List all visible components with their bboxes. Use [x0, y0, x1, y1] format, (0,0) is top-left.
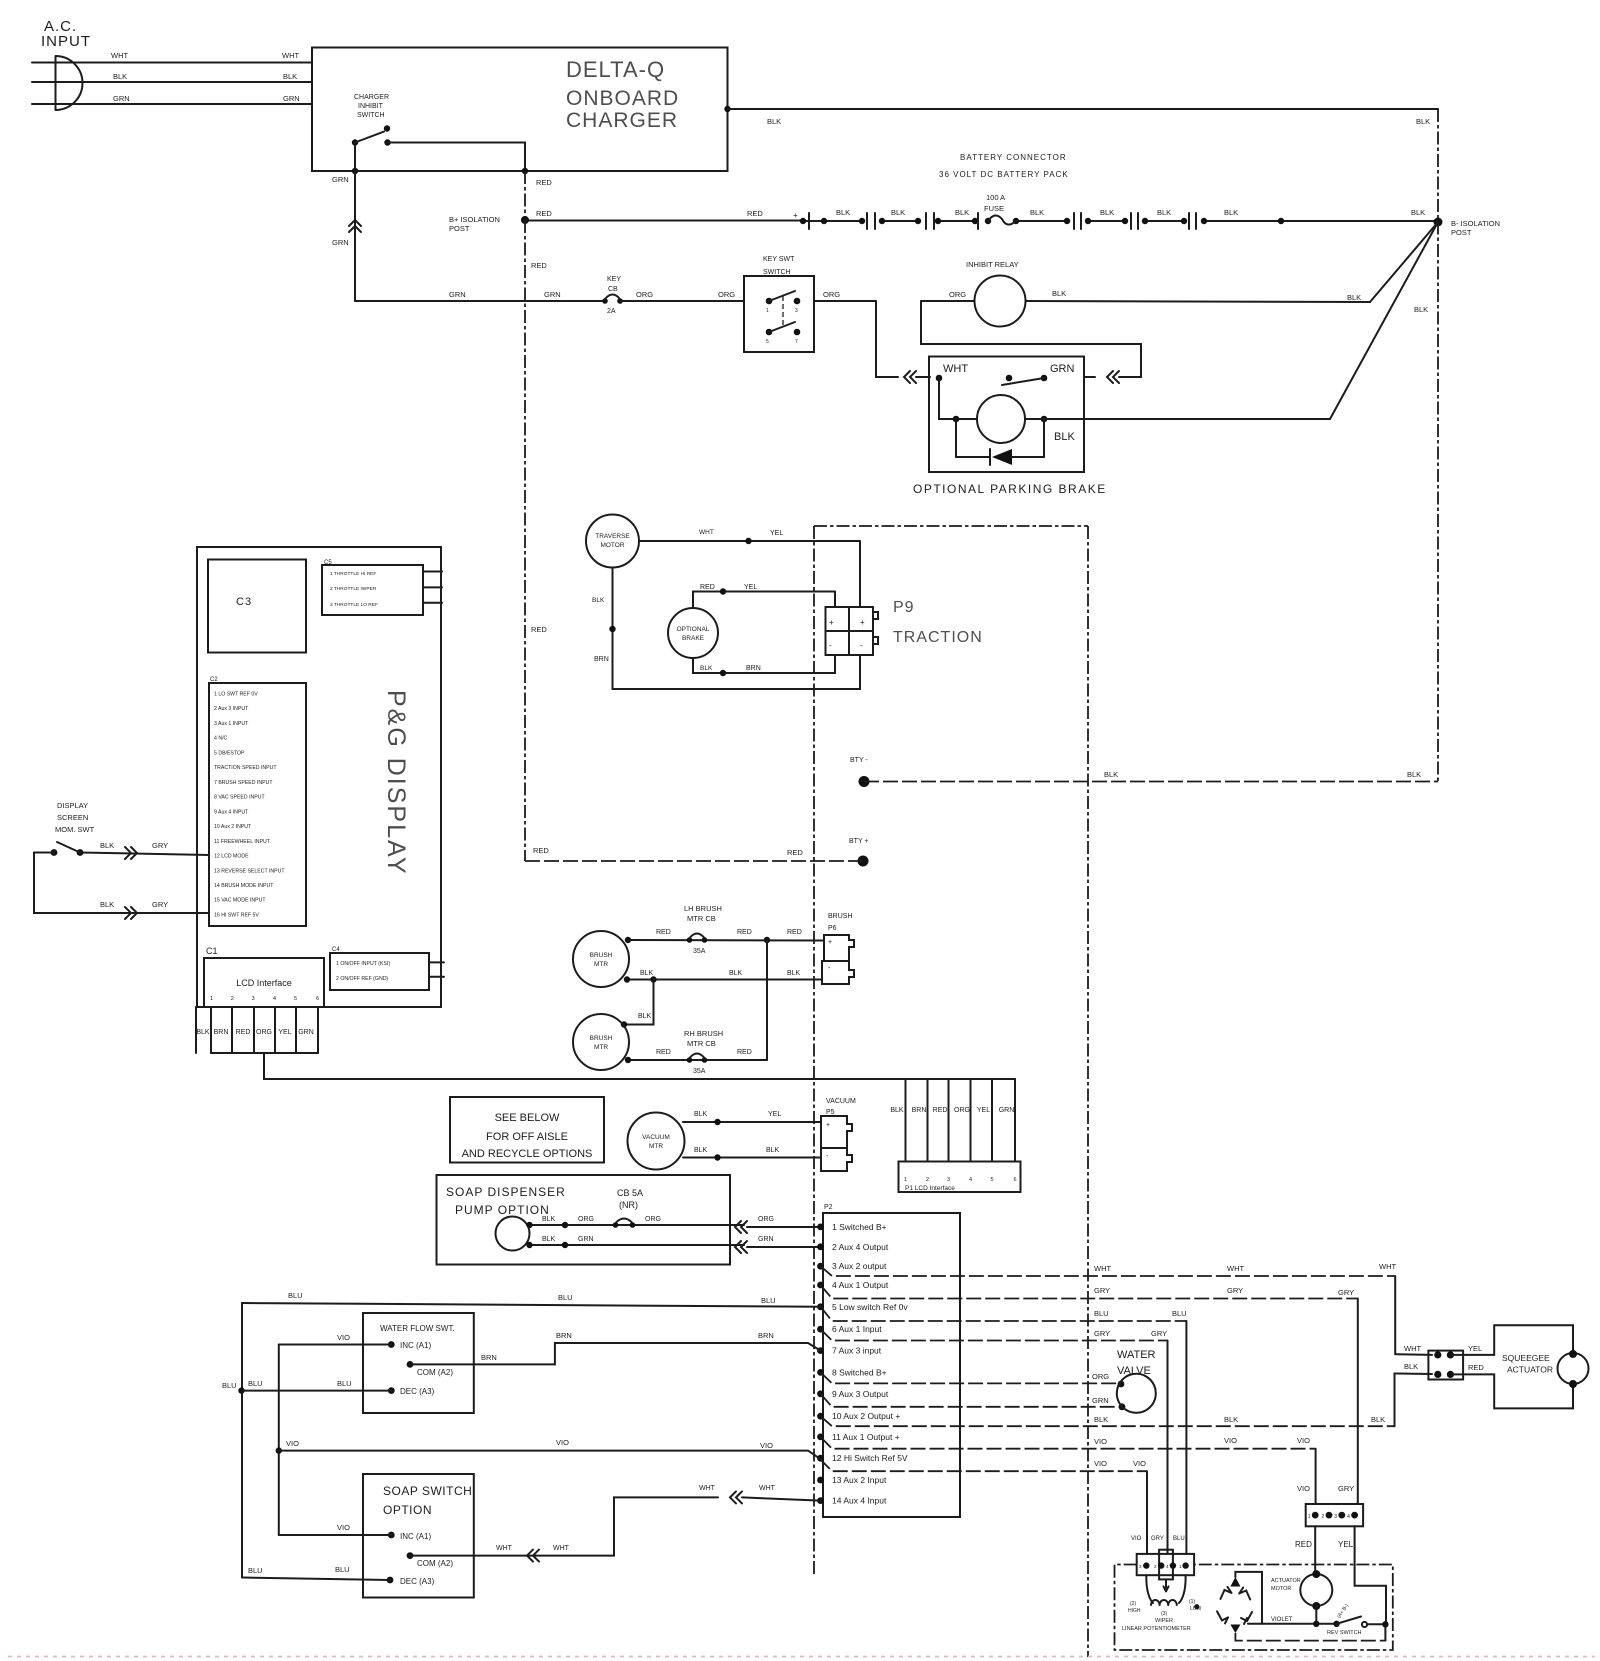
- svg-text:+: +: [826, 1122, 830, 1129]
- svg-text:SWITCH: SWITCH: [357, 112, 385, 119]
- pump M7 soap pump: [496, 1217, 530, 1251]
- svg-text:WHT: WHT: [496, 1545, 513, 1552]
- svg-text:1 THROTTLE HI REF: 1 THROTTLE HI REF: [330, 571, 376, 577]
- svg-text:BLK: BLK: [1094, 1415, 1108, 1424]
- svg-text:GRY: GRY: [1227, 1286, 1243, 1295]
- svg-text:P2: P2: [824, 1204, 833, 1211]
- svg-text:BLU: BLU: [558, 1293, 573, 1302]
- svg-text:P6: P6: [828, 925, 837, 932]
- motor M2 traverse motor: [586, 515, 639, 568]
- wire BLU to water flow DEC: [242, 1390, 391, 1392]
- breaker CB3 RH brush 35A: [687, 1057, 693, 1063]
- svg-text:16 HI SWT REF 5V: 16 HI SWT REF 5V: [214, 912, 259, 918]
- wire BLK BTY- to B- post: [864, 781, 1438, 783]
- wire vertical to charger bottom RED: [524, 143, 526, 172]
- svg-text:5: 5: [294, 996, 297, 1002]
- svg-text:+: +: [860, 618, 865, 627]
- svg-text:GRN: GRN: [298, 1029, 314, 1036]
- actuator A1 squeegee actuator box: [1494, 1325, 1573, 1353]
- svg-text:WHT: WHT: [111, 51, 128, 60]
- wire VIOLET actuator bottom: [1315, 1606, 1317, 1624]
- svg-text:8 Switched B+: 8 Switched B+: [832, 1367, 887, 1377]
- svg-text:(1): (1): [1189, 1599, 1195, 1605]
- svg-text:GRN: GRN: [332, 175, 349, 184]
- wire vertical to charger bottom left GRN: [354, 143, 356, 172]
- svg-text:BRN: BRN: [214, 1029, 229, 1036]
- svg-text:RED: RED: [536, 209, 552, 218]
- svg-text:BLK: BLK: [1054, 431, 1075, 443]
- wire ORG key switch to parking brake drop: [814, 300, 876, 302]
- svg-text:YEL: YEL: [768, 1111, 781, 1118]
- svg-text:INC (A1): INC (A1): [400, 1532, 431, 1541]
- svg-text:BLK: BLK: [1157, 208, 1171, 217]
- svg-text:ORG: ORG: [954, 1107, 970, 1114]
- svg-text:5 DB/ESTOP: 5 DB/ESTOP: [214, 750, 245, 756]
- svg-text:BLK: BLK: [1404, 1362, 1418, 1371]
- wire RED vertical B+ post to BTY+: [524, 220, 526, 861]
- svg-text:LOW: LOW: [1190, 1606, 1202, 1612]
- svg-text:WHT: WHT: [553, 1545, 570, 1552]
- wire BLK/GRN soap pump to P2-2: [530, 1244, 745, 1246]
- svg-text:9 Aux 3 Output: 9 Aux 3 Output: [832, 1389, 889, 1399]
- wire C1 harness ribbon: [195, 1007, 197, 1053]
- wire AC WHT: [32, 62, 312, 64]
- svg-text:RED: RED: [737, 1049, 752, 1056]
- svg-text:1 LO SWT REF 0V: 1 LO SWT REF 0V: [214, 692, 258, 698]
- svg-text:WATER FLOW SWT.: WATER FLOW SWT.: [380, 1324, 455, 1333]
- svg-text:2 ON/OFF REF (GND): 2 ON/OFF REF (GND): [336, 976, 388, 982]
- wire BLK/YEL vacuum to P5+: [683, 1121, 821, 1123]
- svg-text:RED: RED: [700, 584, 715, 591]
- svg-text:4 Aux 1 Output: 4 Aux 1 Output: [832, 1280, 889, 1290]
- svg-text:BLK: BLK: [113, 72, 127, 81]
- svg-text:BLU: BLU: [337, 1379, 352, 1388]
- wire VIO P2 pin11 to rear connector: [821, 1437, 1316, 1449]
- svg-text:1: 1: [766, 308, 769, 314]
- motor M6 vacuum motor: [628, 1113, 685, 1170]
- svg-text:BLK: BLK: [592, 597, 605, 604]
- svg-text:BLU: BLU: [288, 1291, 303, 1300]
- svg-text:WHT: WHT: [1227, 1264, 1244, 1273]
- svg-text:BLK: BLK: [700, 665, 713, 672]
- svg-text:2 Aux 4 Output: 2 Aux 4 Output: [832, 1242, 889, 1252]
- svg-text:MOM. SWT: MOM. SWT: [55, 825, 95, 834]
- wire AC BLK: [32, 81, 312, 83]
- motor M5 RH brush motor: [573, 1014, 629, 1070]
- svg-text:ORG: ORG: [1092, 1372, 1109, 1381]
- wire BLK relay to B- post: [1026, 301, 1371, 302]
- svg-text:RED: RED: [933, 1107, 948, 1114]
- svg-text:P9: P9: [893, 599, 915, 616]
- wire VIO to water flow INC: [279, 1344, 392, 1346]
- diode D1 parking brake: [955, 419, 957, 457]
- svg-text:GRN: GRN: [113, 94, 130, 103]
- box soap dispenser pump option: [437, 1175, 731, 1265]
- wire actuator bridge loop top: [1235, 1572, 1262, 1624]
- svg-text:ORG: ORG: [645, 1216, 661, 1223]
- svg-text:WHT: WHT: [759, 1485, 776, 1492]
- svg-text:15 VAC MODE INPUT: 15 VAC MODE INPUT: [214, 898, 266, 904]
- svg-text:BLK: BLK: [729, 970, 743, 977]
- svg-text:VIO: VIO: [1094, 1459, 1107, 1468]
- svg-text:14 Aux 4 Input: 14 Aux 4 Input: [832, 1496, 887, 1506]
- svg-text:C3: C3: [236, 596, 252, 608]
- svg-text:3 THROTTLE LO REF: 3 THROTTLE LO REF: [330, 602, 378, 608]
- svg-text:ORG: ORG: [758, 1216, 774, 1223]
- svg-text:RED: RED: [787, 848, 803, 857]
- wire BLK LH brush motor: [627, 979, 822, 981]
- wire top BLK charger to B- post: [724, 106, 730, 112]
- svg-text:+: +: [829, 618, 834, 627]
- svg-text:10 Aux 2 INPUT: 10 Aux 2 INPUT: [214, 824, 252, 830]
- wire WHT/YEL traverse to P9+: [639, 540, 860, 542]
- svg-text:BLU: BLU: [222, 1381, 237, 1390]
- svg-text:BLK: BLK: [640, 970, 654, 977]
- svg-text:ORG: ORG: [949, 290, 966, 299]
- svg-text:BRAKE: BRAKE: [682, 635, 705, 642]
- svg-text:GRY: GRY: [1094, 1329, 1110, 1338]
- svg-text:ORG: ORG: [823, 290, 840, 299]
- svg-text:WIPER: WIPER: [1155, 1618, 1173, 1624]
- wire BRN water flow COM to P2 pin7: [410, 1343, 821, 1364]
- svg-text:BLK: BLK: [1411, 208, 1425, 217]
- motor M4 LH brush motor: [573, 931, 629, 987]
- svg-text:BLK: BLK: [1100, 208, 1114, 217]
- svg-text:3: 3: [1334, 1514, 1337, 1520]
- svg-text:8 VAC SPEED INPUT: 8 VAC SPEED INPUT: [214, 795, 265, 801]
- svg-text:RED: RED: [787, 929, 802, 936]
- svg-text:GRY: GRY: [1338, 1484, 1354, 1493]
- wire VIO to soap INC: [279, 1534, 392, 1536]
- box note SEE BELOW: [450, 1097, 604, 1163]
- svg-text:MTR: MTR: [594, 1044, 608, 1051]
- svg-text:3: 3: [947, 1177, 950, 1183]
- svg-text:RED: RED: [1468, 1363, 1484, 1372]
- svg-text:10 Aux 2 Output +: 10 Aux 2 Output +: [832, 1411, 900, 1421]
- wire actuator bridge loop bottom: [1235, 1633, 1385, 1641]
- svg-text:C1: C1: [206, 946, 218, 956]
- svg-text:VIO: VIO: [337, 1523, 350, 1532]
- svg-text:WHT: WHT: [282, 51, 299, 60]
- pot R1 wiper connector: [1137, 1554, 1194, 1575]
- svg-text:BLK: BLK: [787, 970, 801, 977]
- svg-text:BLK: BLK: [1052, 289, 1066, 298]
- svg-text:RED: RED: [236, 1029, 251, 1036]
- svg-text:BLK: BLK: [1371, 1415, 1385, 1424]
- pot R1 wiper resistive element: [1146, 1575, 1185, 1605]
- wire B+ to battery +: [525, 220, 800, 222]
- svg-text:11 Aux 1 Output +: 11 Aux 1 Output +: [832, 1432, 900, 1442]
- svg-text:INC (A1): INC (A1): [400, 1341, 431, 1350]
- svg-text:RH BRUSH: RH BRUSH: [684, 1029, 723, 1038]
- svg-text:WHT: WHT: [1094, 1264, 1111, 1273]
- svg-text:INHIBIT: INHIBIT: [358, 103, 384, 110]
- svg-text:BLK: BLK: [890, 1107, 904, 1114]
- svg-text:BRUSH: BRUSH: [828, 913, 853, 920]
- svg-text:GRN: GRN: [544, 290, 561, 299]
- svg-text:(2): (2): [1130, 1601, 1136, 1607]
- svg-text:1 Switched B+: 1 Switched B+: [832, 1222, 887, 1232]
- svg-text:CB 5A: CB 5A: [617, 1188, 643, 1198]
- motor brake M3 optional brake: [668, 608, 718, 658]
- svg-text:SQUEEGEE: SQUEEGEE: [1502, 1353, 1550, 1363]
- svg-text:OPTIONAL: OPTIONAL: [677, 626, 710, 633]
- svg-text:RED: RED: [1295, 1540, 1312, 1549]
- svg-text:P&G DISPLAY: P&G DISPLAY: [382, 690, 410, 876]
- bridge arrows direction indicator: [1230, 1577, 1240, 1587]
- svg-text:BLU: BLU: [248, 1566, 263, 1575]
- wire BLU P2 pin5 to wiper pot: [821, 1307, 1187, 1321]
- svg-text:GRY: GRY: [1094, 1286, 1110, 1295]
- svg-text:BLK: BLK: [1224, 208, 1238, 217]
- svg-text:WHT: WHT: [1404, 1344, 1421, 1353]
- svg-text:3 Aux 2 output: 3 Aux 2 output: [832, 1261, 887, 1271]
- connector P9 traction: [826, 607, 850, 631]
- svg-text:ORG: ORG: [256, 1029, 272, 1036]
- svg-text:GRN: GRN: [332, 238, 349, 247]
- svg-text:YEL: YEL: [770, 530, 783, 537]
- svg-text:B- ISOLATION: B- ISOLATION: [1451, 219, 1500, 228]
- wire YEL rear connector to rev switch: [1355, 1526, 1386, 1624]
- svg-text:VIO: VIO: [1131, 1536, 1142, 1542]
- svg-text:VIO: VIO: [760, 1441, 773, 1450]
- display U2 P&G DISPLAY outer box: [197, 547, 441, 1007]
- svg-text:1: 1: [210, 996, 213, 1002]
- svg-text:BLU: BLU: [1172, 1309, 1187, 1318]
- svg-text:1: 1: [904, 1177, 907, 1183]
- svg-text:GRY: GRY: [1338, 1288, 1354, 1297]
- svg-text:2: 2: [926, 1177, 929, 1183]
- svg-text:2 THROTTLE WIPER: 2 THROTTLE WIPER: [330, 586, 377, 592]
- svg-text:14 BRUSH MODE INPUT: 14 BRUSH MODE INPUT: [214, 883, 274, 889]
- svg-text:MTR: MTR: [594, 961, 608, 968]
- box soap switch option: [363, 1474, 474, 1598]
- wire ORG P2 pin8 to water valve: [821, 1372, 1122, 1383]
- svg-text:VIO: VIO: [286, 1439, 299, 1448]
- svg-text:3: 3: [795, 308, 798, 314]
- wire GRY P2 pin6 to wiper pot: [821, 1329, 1168, 1340]
- svg-text:P1 LCD Interface: P1 LCD Interface: [905, 1185, 955, 1192]
- wire page bottom dashed line: [8, 1656, 1595, 1658]
- svg-text:12 Hi Switch Ref 5V: 12 Hi Switch Ref 5V: [832, 1453, 908, 1463]
- svg-text:P5: P5: [826, 1109, 835, 1116]
- svg-text:BLU: BLU: [248, 1379, 263, 1388]
- wire BLU long run to P2 pin5: [242, 1303, 821, 1307]
- node B+ isolation post: [521, 216, 529, 224]
- box rear assembly enclosure: [1115, 1565, 1393, 1651]
- svg-text:GRN: GRN: [283, 94, 300, 103]
- svg-text:BLU: BLU: [1173, 1536, 1185, 1542]
- svg-text:SOAP DISPENSER: SOAP DISPENSER: [446, 1185, 566, 1199]
- svg-text:BLK: BLK: [955, 208, 969, 217]
- svg-text:+: +: [793, 211, 798, 220]
- connector AC input plug: [56, 56, 83, 110]
- svg-text:RED: RED: [737, 929, 752, 936]
- svg-text:BRN: BRN: [746, 665, 761, 672]
- svg-text:VIO: VIO: [337, 1333, 350, 1342]
- svg-text:ORG: ORG: [718, 290, 735, 299]
- svg-text:6: 6: [316, 996, 319, 1002]
- svg-text:BLK: BLK: [1407, 770, 1421, 779]
- wire ORG drop to chevron into parking brake: [876, 301, 898, 377]
- svg-text:-: -: [860, 641, 863, 650]
- svg-text:BLK: BLK: [100, 900, 114, 909]
- svg-text:BLK: BLK: [836, 208, 850, 217]
- svg-text:BRN: BRN: [594, 656, 609, 663]
- parking brake assembly box: [929, 357, 1084, 473]
- svg-text:VIO: VIO: [1133, 1459, 1146, 1468]
- svg-text:INPUT: INPUT: [41, 33, 91, 50]
- svg-text:GRY: GRY: [152, 900, 168, 909]
- svg-text:WHT: WHT: [699, 1485, 716, 1492]
- svg-text:35A: 35A: [693, 948, 706, 955]
- svg-text:2: 2: [231, 996, 234, 1002]
- svg-text:DEC (A3): DEC (A3): [400, 1387, 435, 1396]
- wire BLU left riser: [241, 1303, 243, 1578]
- svg-text:RED: RED: [656, 929, 671, 936]
- wire RED RH brush to junction: [628, 1059, 767, 1061]
- svg-text:5 Low switch Ref 0v: 5 Low switch Ref 0v: [832, 1302, 908, 1312]
- svg-text:BLK: BLK: [542, 1236, 556, 1243]
- svg-text:OPTIONAL PARKING BRAKE: OPTIONAL PARKING BRAKE: [913, 482, 1107, 496]
- wire RED RH brush riser: [766, 940, 768, 1060]
- svg-text:WHT: WHT: [699, 529, 714, 536]
- svg-text:MTR CB: MTR CB: [687, 1039, 716, 1048]
- svg-text:1: 1: [1308, 1514, 1311, 1520]
- svg-text:FOR OFF AISLE: FOR OFF AISLE: [486, 1131, 568, 1143]
- svg-text:BLK: BLK: [766, 1147, 780, 1154]
- svg-text:BLK: BLK: [638, 1013, 652, 1020]
- wire WHT P2 pin3 to squeegee: [821, 1266, 1396, 1276]
- svg-text:RED: RED: [531, 625, 547, 634]
- svg-text:VIOLET: VIOLET: [1271, 1617, 1293, 1623]
- svg-text:6 Aux 1 Input: 6 Aux 1 Input: [832, 1324, 882, 1334]
- svg-text:POST: POST: [1451, 228, 1472, 237]
- svg-text:BLK: BLK: [1416, 117, 1430, 126]
- svg-text:BLK: BLK: [196, 1029, 210, 1036]
- switch S4 rev switch: [1337, 1617, 1361, 1624]
- svg-text:LINEAR POTENTIOMETER: LINEAR POTENTIOMETER: [1122, 1626, 1191, 1632]
- svg-text:SWITCH: SWITCH: [763, 269, 791, 276]
- svg-text:PUMP OPTION: PUMP OPTION: [455, 1203, 550, 1217]
- svg-text:3 Aux 1 INPUT: 3 Aux 1 INPUT: [214, 721, 249, 727]
- svg-text:CB: CB: [608, 286, 618, 293]
- switch parking brake contacts: [936, 375, 943, 382]
- svg-text:4: 4: [273, 996, 276, 1002]
- svg-text:BLU: BLU: [1094, 1309, 1109, 1318]
- svg-text:GRN: GRN: [1092, 1396, 1109, 1405]
- breaker CB2 LH brush 35A: [687, 937, 693, 943]
- svg-text:(NR): (NR): [619, 1200, 638, 1210]
- svg-text:RED: RED: [536, 178, 552, 187]
- svg-text:VIO: VIO: [1224, 1436, 1237, 1445]
- connector J2 rear 4-pin: [1306, 1504, 1363, 1526]
- svg-text:TRACTION: TRACTION: [893, 629, 983, 646]
- wire YEL squeegee connector to actuator box: [1450, 1325, 1494, 1355]
- svg-text:YEL: YEL: [1338, 1540, 1354, 1549]
- svg-text:ORG: ORG: [636, 290, 653, 299]
- svg-text:OPTION: OPTION: [383, 1503, 432, 1517]
- svg-text:BLK: BLK: [891, 208, 905, 217]
- svg-text:RED: RED: [656, 1049, 671, 1056]
- svg-text:YEL: YEL: [278, 1029, 291, 1036]
- svg-text:7 Aux 3 input: 7 Aux 3 input: [832, 1346, 882, 1356]
- svg-text:BLK: BLK: [767, 117, 781, 126]
- svg-text:BTY +: BTY +: [849, 838, 869, 845]
- svg-text:SOAP SWITCH: SOAP SWITCH: [383, 1484, 472, 1498]
- wire RED rear connector to actuator motor: [1314, 1526, 1316, 1574]
- svg-text:100 A: 100 A: [986, 193, 1005, 202]
- wire BLK link to RH brush: [624, 980, 654, 1025]
- svg-text:YEL: YEL: [1468, 1344, 1482, 1353]
- motor M8 squeegee actuator motor: [1558, 1353, 1589, 1384]
- svg-text:VIO: VIO: [1094, 1437, 1107, 1446]
- svg-text:7 BRUSH SPEED INPUT: 7 BRUSH SPEED INPUT: [214, 780, 273, 786]
- svg-text:B+ ISOLATION: B+ ISOLATION: [449, 215, 500, 224]
- svg-text:5: 5: [766, 339, 769, 345]
- svg-text:12 LCD MODE: 12 LCD MODE: [214, 854, 249, 860]
- wire RED to BTY+: [525, 860, 863, 862]
- breaker CB4 soap 5A: [613, 1222, 619, 1228]
- svg-text:MOTOR: MOTOR: [600, 542, 624, 549]
- svg-text:BLU: BLU: [761, 1296, 776, 1305]
- svg-text:4: 4: [1347, 1514, 1350, 1520]
- svg-text:GRN: GRN: [999, 1107, 1015, 1114]
- svg-text:VIO: VIO: [1297, 1436, 1310, 1445]
- svg-text:DELTA-Q: DELTA-Q: [566, 57, 665, 82]
- svg-text:GRY: GRY: [1151, 1329, 1167, 1338]
- svg-text:5: 5: [990, 1177, 993, 1183]
- svg-text:+: +: [828, 939, 832, 946]
- svg-text:BATTERY CONNECTOR: BATTERY CONNECTOR: [960, 153, 1067, 162]
- module C3 box: [208, 560, 306, 653]
- wire BLK/BRN traverse loop to P9-: [613, 568, 861, 690]
- svg-text:MTR: MTR: [649, 1143, 663, 1150]
- svg-text:BLK: BLK: [100, 841, 114, 850]
- svg-text:BLK: BLK: [1104, 770, 1118, 779]
- svg-text:BLK: BLK: [694, 1111, 708, 1118]
- svg-text:DEC (A3): DEC (A3): [400, 1577, 435, 1586]
- wire ORG chevron to P2 pin1: [735, 1221, 747, 1233]
- svg-text:SCREEN: SCREEN: [57, 813, 88, 822]
- svg-text:6: 6: [1013, 1177, 1016, 1183]
- svg-text:36 VOLT DC BATTERY PACK: 36 VOLT DC BATTERY PACK: [939, 170, 1069, 179]
- wire enclosure dash box top: [814, 525, 1088, 527]
- wire enclosure dash box right: [1087, 526, 1089, 1657]
- svg-text:VACUUM: VACUUM: [826, 1098, 856, 1105]
- wire RED squeegee connector to actuator box: [1450, 1374, 1494, 1408]
- svg-text:BRN: BRN: [481, 1353, 497, 1362]
- svg-text:AND RECYCLE OPTIONS: AND RECYCLE OPTIONS: [462, 1148, 593, 1160]
- svg-text:BLK: BLK: [1414, 305, 1428, 314]
- svg-text:RED: RED: [747, 209, 763, 218]
- wire WHT soap COM to P2 pin14: [410, 1497, 718, 1555]
- svg-text:DISPLAY: DISPLAY: [57, 801, 88, 810]
- wire BLK/GRY to C2 pin 16: [34, 853, 209, 914]
- svg-text:LH BRUSH: LH BRUSH: [684, 904, 722, 913]
- wire BLK vacuum to P5-: [683, 1157, 821, 1159]
- svg-text:ONBOARD: ONBOARD: [566, 87, 679, 110]
- svg-text:ORG: ORG: [578, 1216, 594, 1223]
- node B- isolation post: [1434, 218, 1443, 227]
- svg-text:BLU: BLU: [335, 1565, 350, 1574]
- svg-text:13 REVERSE SELECT INPUT: 13 REVERSE SELECT INPUT: [214, 868, 285, 874]
- wire enclosure dash box left: [813, 526, 815, 1576]
- svg-text:VIO: VIO: [1297, 1484, 1310, 1493]
- wire GRN run to key CB: [355, 300, 604, 302]
- connector P5 vacuum: [821, 1116, 852, 1148]
- svg-text:7: 7: [795, 339, 798, 345]
